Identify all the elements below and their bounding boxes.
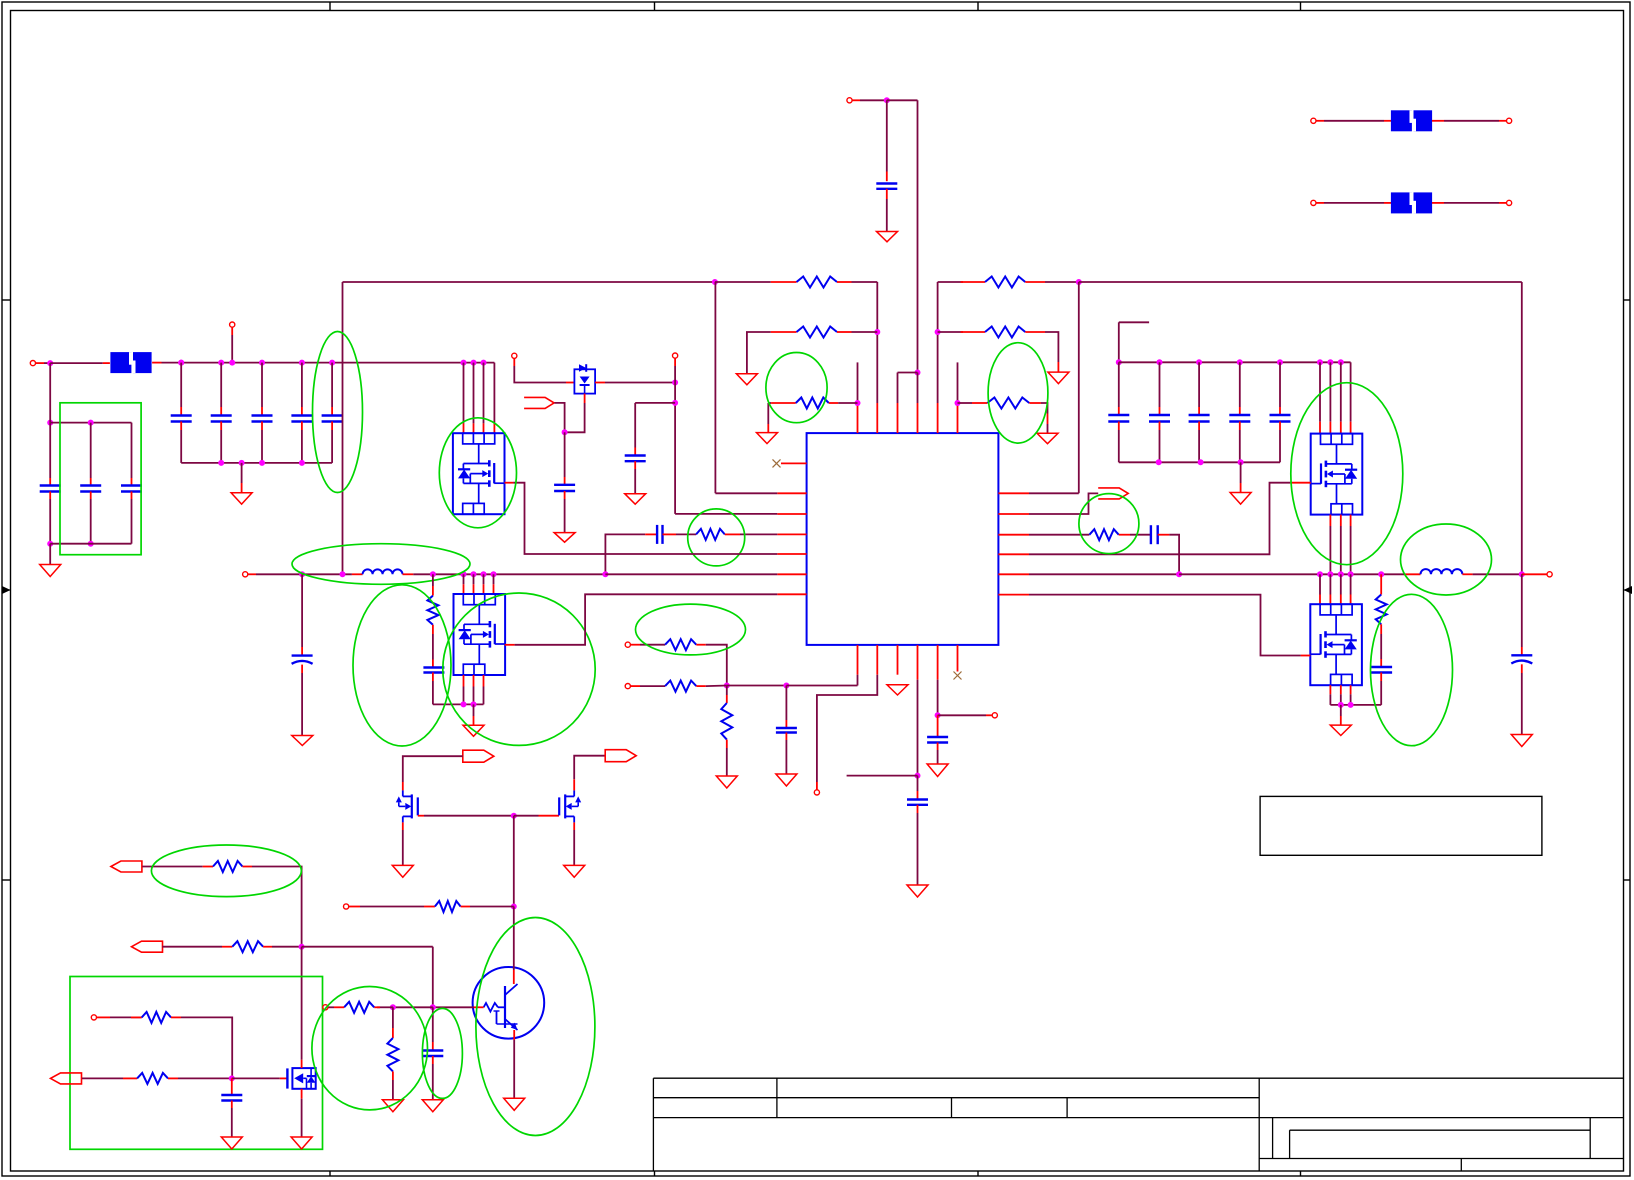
wire flag TP1 bbox=[555, 403, 565, 432]
terminal F3 left bbox=[1311, 200, 1316, 205]
capacitor CsnubR bbox=[1371, 667, 1392, 673]
stub Cout bot bbox=[301, 665, 303, 673]
capacitor C7 bbox=[657, 525, 662, 544]
wire pin493R corner bbox=[1029, 492, 1079, 494]
wire x675 to pin514 bbox=[675, 513, 777, 515]
stub Q3 gate bbox=[1290, 482, 1310, 484]
stub C10 top bbox=[937, 715, 939, 737]
ground Cout bbox=[292, 736, 313, 746]
junction bbox=[259, 360, 265, 366]
stub R535 right bbox=[1119, 534, 1130, 536]
highlight L2 bbox=[1401, 524, 1492, 595]
wire base row left2 bbox=[377, 1006, 393, 1008]
stub Q3 src x1330 bbox=[1329, 515, 1331, 526]
ground C10 bbox=[927, 764, 948, 777]
junction bbox=[1238, 459, 1244, 465]
wire pin937 right bbox=[938, 714, 986, 716]
inductor L1 bbox=[363, 569, 403, 574]
stub Cr1 bot bbox=[1118, 422, 1120, 431]
stub Q2 src x483 bbox=[483, 675, 485, 687]
wire C5 to gnd bbox=[564, 499, 566, 533]
junction bbox=[1076, 279, 1082, 285]
stub R403R right bbox=[1029, 402, 1041, 404]
wire Cr3 top bbox=[1198, 362, 1200, 407]
junction bbox=[88, 420, 94, 426]
stub C6 bot bbox=[634, 461, 636, 469]
wire row403R start bbox=[958, 402, 973, 404]
wire Q2 drain x493 bbox=[493, 574, 495, 584]
pin U1 left y514 bbox=[777, 513, 806, 515]
pin U1 left y534 bbox=[777, 533, 806, 535]
wire Q3 gate to pin bbox=[1029, 483, 1290, 555]
capacitor Cr3 bbox=[1189, 415, 1210, 422]
stub C1 bottom bbox=[886, 189, 888, 199]
ground Q5 bbox=[392, 865, 413, 877]
note box bbox=[1260, 796, 1542, 855]
wire R534 to pin bbox=[740, 533, 777, 535]
stub R947 left bbox=[222, 946, 232, 948]
junction bbox=[511, 813, 517, 819]
wire L2 to junction bbox=[1473, 573, 1522, 575]
wire Cin5 bot bbox=[331, 430, 333, 463]
wire Cout drop bbox=[301, 574, 303, 647]
pin F3 stub right bbox=[1432, 202, 1444, 204]
frame zone tick bottom bbox=[977, 1171, 979, 1176]
junction bbox=[1338, 571, 1344, 577]
wire Cin4 bot bbox=[301, 430, 303, 463]
stub Cin gnd bbox=[241, 483, 243, 493]
stub Cr gnd bbox=[1240, 483, 1242, 493]
ground R394 bbox=[382, 1100, 403, 1112]
resistor R535 bbox=[1089, 529, 1118, 540]
stub R403L left bbox=[771, 402, 796, 404]
wire block top bus bbox=[50, 422, 131, 424]
stub Q6 top bbox=[573, 779, 575, 790]
stub R1017 l2 bbox=[131, 1016, 142, 1018]
wire Cb2 bot bbox=[90, 499, 92, 544]
wire Cr1 top bbox=[1118, 362, 1120, 407]
highlight box bbox=[70, 977, 323, 1150]
stub R403R left bbox=[972, 402, 987, 404]
stub R866 right bbox=[243, 866, 253, 868]
transistor Q3 bbox=[1311, 434, 1363, 515]
wire pin514R flag bbox=[1029, 493, 1098, 514]
highlight Q8 bbox=[476, 918, 595, 1136]
pin U1 bottom 3 bbox=[897, 645, 899, 675]
frame zone tick bottom bbox=[1300, 1171, 1302, 1176]
capacitor C12 bbox=[221, 1095, 242, 1101]
stub Q4 gnd bbox=[1340, 716, 1342, 725]
junction bbox=[471, 360, 477, 366]
wire pin857 up (stub) bbox=[857, 362, 859, 403]
wire Rfb1 corner bbox=[706, 645, 727, 686]
pin F2 stub bbox=[1384, 120, 1391, 122]
resistor R947 bbox=[232, 941, 263, 952]
pin U1 left NC bbox=[781, 462, 807, 464]
stub Cin5 top bbox=[331, 407, 333, 416]
stub Cb3 top bbox=[131, 478, 133, 486]
junction bbox=[1237, 359, 1243, 365]
ground row332R bbox=[1048, 372, 1069, 384]
frame zone tick right bbox=[1624, 879, 1631, 881]
wire 403 branch bbox=[635, 402, 675, 404]
capacitor Cin5 bbox=[322, 416, 343, 422]
diode D1 bbox=[574, 364, 595, 393]
wire R394 to gnd bbox=[392, 1080, 394, 1100]
wire FB1 bbox=[640, 644, 665, 646]
capacitor Cb2 bbox=[80, 486, 101, 492]
wire Q1 drain x463 bbox=[463, 363, 465, 424]
stub Q4 drain x1350 bbox=[1350, 595, 1352, 605]
wire row403R gnd2 bbox=[1047, 424, 1049, 433]
flag DRVH bbox=[1098, 488, 1128, 499]
wire pin937 up bbox=[937, 282, 939, 403]
stub Cin1 bot bbox=[180, 422, 182, 431]
stub Q4 src x1340 bbox=[1340, 685, 1342, 694]
stub Q4 drain x1320 bbox=[1319, 595, 1321, 605]
junction bbox=[47, 420, 53, 426]
capacitor Cr5 bbox=[1270, 415, 1291, 422]
terminal VOUT2 bbox=[1547, 572, 1552, 577]
wire R394 top bbox=[392, 1007, 394, 1028]
ground block bbox=[40, 565, 61, 577]
junction bbox=[430, 571, 436, 577]
title block bbox=[653, 1078, 1623, 1171]
wire Q3 drain x1330 bbox=[1329, 362, 1331, 421]
wire Cb3 bot bbox=[131, 499, 133, 544]
resistor R403R bbox=[987, 398, 1029, 409]
junction bbox=[672, 400, 678, 406]
stub Q5 top bbox=[402, 782, 404, 790]
wire block gnd drop bbox=[49, 544, 51, 565]
wire Cin2 top bbox=[220, 363, 222, 407]
highlight snubberR bbox=[1371, 594, 1453, 745]
stub SWR out bbox=[1522, 573, 1547, 575]
stub Q7 gate bbox=[280, 1077, 288, 1079]
wire pin917 down bbox=[917, 680, 919, 776]
wire Q3 drain x1340 bbox=[1340, 362, 1342, 421]
pin U1 top x937 bbox=[937, 403, 939, 433]
stub RsnubL top bbox=[432, 586, 434, 596]
stub Q1 drain x483 bbox=[483, 423, 485, 433]
flag EN1 bbox=[111, 861, 142, 872]
wire Q1 gate to pin bbox=[513, 483, 777, 554]
wire Q2 gate to pin bbox=[515, 594, 778, 645]
pin U1 left y493 bbox=[777, 492, 806, 494]
junction bbox=[1317, 359, 1323, 365]
fuse F3 bbox=[1391, 192, 1432, 213]
stub R332R left bbox=[961, 331, 986, 333]
highlight snubberL bbox=[353, 585, 451, 746]
wire Q2 gnd drop bbox=[473, 704, 475, 716]
wire Q2 source bus bbox=[433, 703, 484, 705]
stub D1 bottom bbox=[584, 394, 586, 403]
stub F1 left bbox=[103, 362, 110, 364]
stub Q4 gate bbox=[1301, 655, 1311, 657]
wire Q3 drain corner bbox=[1350, 362, 1352, 421]
stub D1 left bbox=[566, 382, 574, 384]
capacitor C8 bbox=[776, 728, 797, 733]
terminal FB1 bbox=[625, 642, 630, 647]
junction bbox=[299, 360, 305, 366]
junction bbox=[1157, 359, 1163, 365]
pin U1 right y594 bbox=[998, 594, 1029, 596]
wire Q5 to gnd bbox=[402, 830, 404, 865]
stub Cb1 bot bbox=[49, 492, 51, 500]
stub Q4 src x1330 bbox=[1329, 685, 1331, 694]
junction bbox=[1176, 571, 1182, 577]
pin U1 bottom 4 bbox=[917, 645, 919, 680]
pin U1 bottom 6 bbox=[957, 645, 959, 672]
stub Q2 drain x473 bbox=[473, 584, 475, 594]
wire gate row2 bbox=[514, 815, 539, 817]
pin F2 right stub bbox=[1499, 120, 1507, 122]
stub Q2 src x463 bbox=[463, 675, 465, 687]
terminal VIN bbox=[30, 361, 35, 366]
terminal ADJ bbox=[91, 1015, 96, 1020]
stub Cin3 top bbox=[261, 407, 263, 416]
wire Q8 emitter bbox=[513, 1040, 515, 1098]
stub Cb1 top bbox=[49, 478, 51, 486]
terminal BASE2 bbox=[323, 1005, 328, 1010]
terminal SW out bbox=[243, 572, 248, 577]
wire Q1 drain x483 bbox=[483, 363, 485, 424]
resistor R534 bbox=[696, 529, 725, 540]
junction bbox=[218, 360, 224, 366]
pin F3 stub bbox=[1384, 202, 1391, 204]
stub R866 left bbox=[203, 866, 213, 868]
pin U1 left y554 bbox=[777, 553, 806, 555]
stub R534 right bbox=[725, 533, 740, 535]
highlight R534 bbox=[688, 509, 745, 566]
wire C11 corner bbox=[1169, 535, 1179, 575]
wire R403L to junction bbox=[838, 402, 857, 404]
capacitor Cin1 bbox=[171, 416, 192, 422]
stub Q4 src x1350 bbox=[1350, 685, 1352, 694]
junction bbox=[461, 571, 467, 577]
terminal P1 bbox=[847, 98, 852, 103]
wire long vertical x917 bbox=[917, 100, 919, 372]
stub RsnubR top bbox=[1380, 574, 1382, 594]
frame zone tick bottom bbox=[654, 1171, 656, 1176]
wire base row bbox=[433, 1006, 474, 1008]
junction bbox=[1378, 571, 1384, 577]
terminal BASE bbox=[344, 904, 349, 909]
capacitor Cin2 bbox=[211, 416, 232, 422]
wire Q7 src gnd bbox=[301, 1099, 303, 1137]
wire C9 top bbox=[917, 776, 919, 791]
stub CoutR top bbox=[1521, 647, 1523, 655]
stub C564 top bbox=[564, 477, 566, 485]
wire Cr2 bot bbox=[1159, 430, 1161, 462]
wire Q2 drain x473 bbox=[473, 574, 475, 584]
wire C1 to gnd bbox=[886, 199, 888, 232]
wire Q1 drain corner bbox=[493, 363, 495, 424]
terminal FB2 bbox=[625, 684, 630, 689]
wire Cr2 top bbox=[1159, 362, 1161, 407]
wire base row left bbox=[393, 1006, 433, 1008]
wire x432 down bbox=[432, 947, 434, 1008]
highlight C13 bbox=[422, 1008, 462, 1098]
wire R332R corner bbox=[1045, 332, 1058, 362]
wire flag PG1 bbox=[403, 756, 463, 782]
wire R1007 lead bbox=[328, 1006, 334, 1008]
wire Cr3 bot bbox=[1198, 430, 1200, 462]
stub row332R gnd bbox=[1057, 362, 1059, 372]
wire x715 to pin bbox=[715, 492, 777, 494]
stub Cin1 top bbox=[180, 407, 182, 416]
wire pin877 net bbox=[817, 675, 877, 782]
resistor R866 bbox=[213, 861, 243, 872]
stub P1 bbox=[852, 99, 860, 101]
junction bbox=[1156, 459, 1162, 465]
stub CsnubR top bbox=[1380, 659, 1382, 667]
stub EN bbox=[674, 358, 676, 366]
wire Cb2 top bbox=[90, 423, 92, 478]
stub Q4 drain x1330 bbox=[1329, 595, 1331, 605]
wire hook down bbox=[1118, 322, 1120, 362]
wire D1 bottom bbox=[565, 403, 585, 432]
frame zone tick top bbox=[654, 2, 656, 11]
pin U1 top x917 bbox=[917, 403, 919, 433]
junction bbox=[935, 329, 941, 335]
stub C8 top bbox=[785, 720, 787, 728]
stub R1007 left bbox=[334, 1006, 344, 1008]
wire gate row bbox=[424, 815, 514, 817]
capacitor Cb3 bbox=[121, 486, 142, 492]
wire Q4 src x1330 bbox=[1329, 694, 1331, 705]
wire FB2 bbox=[640, 685, 665, 687]
ground Q2 bbox=[463, 725, 484, 736]
stub C11 right bbox=[1158, 534, 1170, 536]
wire Cin3 top bbox=[261, 363, 263, 407]
wire Q8 collector bbox=[513, 907, 515, 971]
wire Cr1 bot bbox=[1118, 430, 1120, 462]
stub Q2 drain x483 bbox=[483, 584, 485, 594]
wire Q3 drain x1320 bbox=[1319, 362, 1321, 421]
stub R906 l2 bbox=[424, 906, 435, 908]
wire x564 to cap bbox=[564, 432, 566, 477]
IC U1 bbox=[807, 433, 999, 645]
stub Cb2 top bbox=[90, 478, 92, 486]
frame zone tick right bbox=[1624, 299, 1631, 301]
stub Cin4 top bbox=[301, 407, 303, 416]
terminal F3 right bbox=[1507, 200, 1512, 205]
wire Q2 src x463 bbox=[463, 687, 465, 705]
transistor Q2 bbox=[454, 594, 506, 675]
ground C9 bbox=[907, 885, 928, 897]
resistor R394 bbox=[387, 1038, 398, 1071]
wire C12 to gnd bbox=[231, 1108, 233, 1137]
highlight R866 bbox=[151, 845, 301, 897]
stub R947 right bbox=[263, 946, 272, 948]
stub Cr3 bot bbox=[1198, 422, 1200, 431]
wire R535 to C bbox=[1130, 534, 1151, 536]
wire Q4 drain x1350 bbox=[1350, 574, 1352, 594]
junction bbox=[229, 360, 235, 366]
stub RsnubR bot bbox=[1380, 624, 1382, 634]
stub R906 left bbox=[349, 906, 360, 908]
stub R282L right bbox=[837, 281, 852, 283]
junction bbox=[783, 683, 789, 689]
stub Cr3 top bbox=[1198, 407, 1200, 415]
stub C12 bot bbox=[231, 1101, 233, 1109]
stub R1078 left bbox=[123, 1077, 137, 1079]
highlight R403R circ bbox=[988, 343, 1048, 443]
junction bbox=[1116, 359, 1122, 365]
stub FB2 bbox=[630, 685, 640, 687]
stub Q3 drain corner bbox=[1350, 422, 1352, 434]
frame zone tick top bbox=[1300, 2, 1302, 11]
wire SW mid bbox=[413, 573, 605, 575]
junction bbox=[299, 944, 305, 950]
junction bbox=[1348, 571, 1354, 577]
junction bbox=[218, 460, 224, 466]
wire Cin3 bot bbox=[261, 430, 263, 463]
wire Cin1 top bbox=[180, 363, 182, 407]
highlight block bbox=[60, 403, 141, 555]
stub Cin4 bot bbox=[301, 422, 303, 431]
stub Rfb3 top bbox=[726, 695, 728, 703]
wire F3 right bbox=[1444, 202, 1499, 204]
ground Q6 bbox=[564, 865, 585, 877]
wire Cr5 bot bbox=[1279, 430, 1281, 462]
resistor RsnubR bbox=[1376, 595, 1387, 625]
junction bbox=[259, 460, 265, 466]
stub Q3 src x1350 bbox=[1350, 515, 1352, 526]
junction bbox=[471, 701, 477, 707]
terminal gate aux bbox=[512, 353, 517, 358]
pin U1 bottom 2 bbox=[876, 645, 878, 675]
capacitor C13 bbox=[422, 1051, 443, 1057]
highlight Rfb1 bbox=[636, 604, 746, 655]
wire Q2 drain x483 bbox=[483, 574, 485, 584]
stub Q3 drain x1340 bbox=[1340, 422, 1342, 434]
junction bbox=[1519, 571, 1525, 577]
stub R282R left bbox=[961, 281, 986, 283]
wire SW seg2 bbox=[302, 573, 352, 575]
capacitor Cb1 bbox=[40, 486, 61, 492]
capacitor Cout bbox=[292, 656, 313, 664]
wire Cr gnd drop bbox=[1240, 462, 1242, 483]
junction bbox=[178, 360, 184, 366]
fuse F2 bbox=[1391, 110, 1432, 131]
stub row403R gnd bbox=[1047, 414, 1049, 425]
wire R947 to junction bbox=[272, 946, 302, 948]
wire Cr4 top bbox=[1239, 362, 1241, 407]
junction bbox=[915, 773, 921, 779]
junction bbox=[955, 400, 961, 406]
frame zone tick bottom bbox=[329, 1171, 331, 1176]
wire flag EN1 bbox=[142, 866, 202, 868]
stub Q6 gate bbox=[539, 815, 560, 817]
junction bbox=[88, 541, 94, 547]
highlight RC bottom bbox=[312, 986, 428, 1109]
wire SWR mid bbox=[1179, 573, 1404, 575]
resistor RsnubL bbox=[427, 596, 438, 625]
stub C12 top bbox=[231, 1078, 233, 1095]
frame center arrow left bbox=[2, 586, 11, 594]
wire RC534 corner bbox=[605, 534, 645, 574]
stub CsnubL bot bbox=[432, 673, 434, 682]
stub C564 bot bbox=[564, 491, 566, 499]
wire junction to corner bbox=[887, 99, 918, 101]
stub Q1 drain corner bbox=[493, 423, 495, 433]
wire CoutR to gnd bbox=[1521, 673, 1523, 735]
stub Cb2 bot bbox=[90, 492, 92, 500]
frame center arrow right bbox=[1624, 586, 1633, 594]
stub Q1 drain x473 bbox=[473, 423, 475, 433]
